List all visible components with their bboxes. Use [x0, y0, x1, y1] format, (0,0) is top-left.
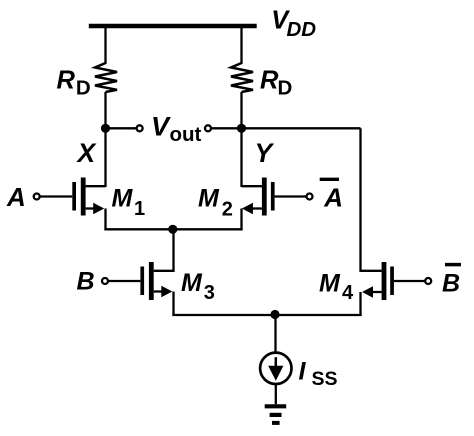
svg-text:A: A [6, 182, 26, 212]
label VDD [271, 7, 316, 41]
wire: current source to ground [275, 385, 277, 405]
resistor RD left [95, 63, 117, 92]
svg-text:DD: DD [287, 18, 317, 41]
svg-text:R: R [260, 67, 279, 95]
label Vout [151, 111, 202, 146]
node P junction dot (M1/M2 sources to M3 drain) [168, 225, 177, 234]
wire: M4 gate to Bbar terminal [394, 280, 425, 282]
node Q junction dot (tail node) [270, 310, 279, 319]
svg-text:B: B [442, 270, 460, 298]
node X junction dot [101, 124, 110, 133]
svg-text:4: 4 [342, 282, 354, 304]
label ISS [299, 358, 338, 390]
input terminal Abar open circle [307, 194, 313, 200]
label M4 [319, 270, 354, 305]
svg-text:X: X [76, 138, 97, 168]
svg-text:M: M [112, 185, 134, 213]
svg-text:B: B [77, 268, 95, 296]
input terminal B open circle [102, 278, 108, 284]
svg-text:I: I [299, 358, 307, 386]
svg-text:1: 1 [134, 198, 145, 220]
svg-text:M: M [181, 269, 203, 297]
svg-text:M: M [198, 185, 220, 213]
wire: RD left to node X to M1 drain [104, 92, 106, 187]
wire: common source of M1 and M2 [104, 228, 242, 230]
label RD left [57, 67, 91, 100]
svg-text:M: M [319, 270, 341, 298]
resistor RD right [231, 63, 253, 92]
VDD power rail [89, 24, 257, 28]
label RD right [260, 67, 292, 100]
node Y junction dot [237, 124, 246, 133]
svg-text:V: V [151, 111, 171, 141]
svg-text:D: D [76, 77, 91, 100]
current source ISS [260, 353, 291, 384]
Vout right open terminal [205, 125, 211, 131]
wire: VDD rail to RD left [104, 26, 106, 64]
wire: A terminal to M1 gate [40, 195, 72, 197]
wire: node Y to right branch top [242, 127, 361, 129]
input terminal A open circle [34, 194, 40, 200]
Vout left open terminal [137, 125, 143, 131]
wire: node X to Vout left terminal [106, 127, 137, 129]
input terminal Bbar open circle [425, 278, 431, 284]
wire: B terminal to M3 gate [108, 280, 140, 282]
ground symbol [265, 406, 287, 423]
label M3 [181, 269, 215, 304]
svg-text:SS: SS [312, 368, 338, 390]
label Bbar with overbar [442, 265, 461, 298]
svg-text:D: D [278, 77, 293, 100]
label Abar with overbar [320, 179, 343, 212]
svg-text:out: out [170, 123, 202, 146]
svg-text:R: R [57, 67, 76, 95]
wire: M2 gate to Abar terminal [275, 195, 306, 197]
label M2 [198, 185, 233, 221]
wire: node P down to M3 drain [172, 229, 174, 272]
svg-text:A: A [323, 182, 343, 212]
transistor M4 [361, 262, 394, 316]
wire: node Q down to current source [274, 315, 276, 353]
transistor M2 [242, 178, 275, 231]
wire: bottom common rail (M3/M4 sources) [172, 314, 361, 316]
svg-text:2: 2 [222, 199, 233, 221]
wire: right branch down to M4 drain [359, 128, 361, 272]
wire: Vout right terminal to node Y [211, 127, 241, 129]
label M1 [112, 185, 146, 221]
wire: RD right to node Y to M2 drain [240, 92, 242, 187]
transistor M1 [72, 178, 105, 231]
wire: VDD rail to RD right [240, 26, 242, 64]
transistor M3 [140, 262, 173, 316]
svg-text:Y: Y [255, 138, 275, 168]
svg-text:3: 3 [204, 282, 215, 304]
